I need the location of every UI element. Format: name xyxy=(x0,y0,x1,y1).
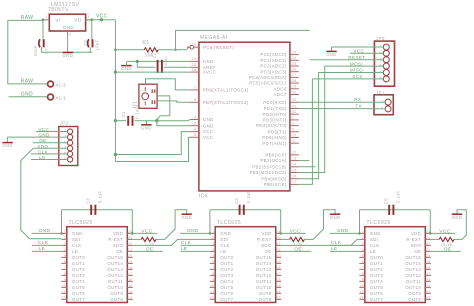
svg-text:17: 17 xyxy=(128,272,132,276)
svg-text:21: 21 xyxy=(128,248,132,252)
svg-text:14: 14 xyxy=(277,290,281,294)
LED driver U4 TLC5925 xyxy=(359,220,431,303)
svg-text:2: 2 xyxy=(69,32,71,36)
svg-text:18: 18 xyxy=(192,68,196,72)
svg-text:17: 17 xyxy=(426,272,430,276)
svg-text:OUT14: OUT14 xyxy=(107,261,123,266)
svg-text:4: 4 xyxy=(64,248,66,252)
svg-text:18: 18 xyxy=(426,266,430,270)
svg-text:OUT3: OUT3 xyxy=(220,273,233,278)
svg-text:8: 8 xyxy=(362,272,364,276)
svg-text:1.2k: 1.2k xyxy=(145,242,155,247)
svg-text:VCC: VCC xyxy=(439,228,450,234)
wire to GND pin 5 xyxy=(157,121,190,126)
connector JP1 xyxy=(374,91,393,115)
svg-text:20: 20 xyxy=(277,254,281,258)
svg-text:5: 5 xyxy=(64,254,66,258)
svg-text:OUT4: OUT4 xyxy=(370,279,383,284)
wire GND into U2 xyxy=(32,232,62,234)
svg-text:11: 11 xyxy=(292,139,296,143)
svg-text:28: 28 xyxy=(292,79,296,83)
wire C8 top xyxy=(91,20,93,39)
svg-text:VCC: VCC xyxy=(203,129,213,134)
IC4 left pins xyxy=(187,43,249,140)
svg-text:JP1: JP1 xyxy=(376,91,385,96)
LED driver U3 TLC5925 xyxy=(210,220,282,303)
wire C7/C8 ground link xyxy=(42,47,92,52)
wire OE JP2-3 xyxy=(33,142,68,144)
wire RAW input to regulator VI xyxy=(8,19,44,21)
svg-text:16: 16 xyxy=(128,278,132,282)
wire C4 rail xyxy=(210,209,281,211)
wire C5 right drop to VDD xyxy=(429,210,431,234)
wire gnd stub near Q1 xyxy=(145,121,147,125)
svg-text:OUT5: OUT5 xyxy=(72,285,85,290)
svg-text:GND: GND xyxy=(21,91,33,97)
svg-text:22: 22 xyxy=(277,242,281,246)
svg-text:OUT12: OUT12 xyxy=(107,273,123,278)
ground at JP3 xyxy=(326,51,336,57)
svg-text:12: 12 xyxy=(360,296,364,300)
svg-text:LE: LE xyxy=(72,249,78,254)
svg-text:PB5(SCK): PB5(SCK) xyxy=(264,182,287,187)
wire TX PD1 to JP1-2 xyxy=(299,108,385,110)
svg-text:RESET: RESET xyxy=(348,55,365,60)
svg-text:OUT2: OUT2 xyxy=(72,267,85,272)
svg-text:15: 15 xyxy=(277,284,281,288)
svg-text:20: 20 xyxy=(192,63,196,67)
svg-text:PD6(AIN0): PD6(AIN0) xyxy=(262,135,287,140)
svg-text:1: 1 xyxy=(292,116,294,120)
pad X1-2 xyxy=(48,81,54,87)
svg-text:SDO: SDO xyxy=(261,243,272,248)
svg-text:100n: 100n xyxy=(164,56,168,66)
svg-text:OUT8: OUT8 xyxy=(110,297,123,302)
svg-text:R-EXT: R-EXT xyxy=(257,237,272,242)
svg-text:3: 3 xyxy=(194,115,196,119)
LED driver U2 TLC5925 xyxy=(61,220,133,303)
svg-text:OUT2: OUT2 xyxy=(370,267,383,272)
svg-text:1: 1 xyxy=(64,230,66,234)
svg-text:6: 6 xyxy=(362,260,364,264)
svg-text:MEGA8-AI: MEGA8-AI xyxy=(200,35,228,41)
svg-text:C2: C2 xyxy=(153,53,157,59)
svg-text:OUT11: OUT11 xyxy=(108,279,124,284)
svg-text:GND: GND xyxy=(181,215,192,220)
svg-text:GND: GND xyxy=(203,123,214,128)
svg-text:LE: LE xyxy=(370,249,376,254)
junction C8 xyxy=(90,18,93,21)
svg-text:VCC: VCC xyxy=(141,228,152,234)
svg-text:PC4(ADC4/SDA): PC4(ADC4/SDA) xyxy=(249,75,287,80)
svg-text:C3: C3 xyxy=(86,198,91,204)
svg-text:OUT14: OUT14 xyxy=(405,261,421,266)
voltage regulator IC1 LM1117SV 7805TV xyxy=(44,2,90,36)
svg-text:TLC5925: TLC5925 xyxy=(68,220,92,226)
wire C2 to AREF pin 20 xyxy=(164,66,190,68)
svg-text:PB1(OC1A): PB1(OC1A) xyxy=(260,158,287,163)
svg-text:VCC: VCC xyxy=(203,135,213,140)
svg-text:1: 1 xyxy=(212,230,214,234)
svg-text:PD7(AIN1): PD7(AIN1) xyxy=(262,141,287,146)
junction C5 gnd xyxy=(358,232,361,235)
resistor R-EXT 1.2k for U2 xyxy=(141,237,156,247)
junction rail-R1 xyxy=(114,49,117,52)
wire SCK PB5 to JP3-6 xyxy=(299,79,383,184)
svg-text:3: 3 xyxy=(212,242,214,246)
wire GND into U4 xyxy=(330,232,360,234)
svg-text:20: 20 xyxy=(128,254,132,258)
svg-text:OUT1: OUT1 xyxy=(220,261,233,266)
wire CLK U3 xyxy=(181,244,210,246)
svg-text:OUT6: OUT6 xyxy=(220,291,233,296)
svg-text:1.2k: 1.2k xyxy=(293,242,303,247)
svg-text:OUT5: OUT5 xyxy=(220,285,233,290)
ground for R-EXT U4 xyxy=(452,214,463,220)
svg-text:OUT4: OUT4 xyxy=(72,279,85,284)
junction VDD U3 xyxy=(279,232,282,235)
wire OE U2 xyxy=(133,250,163,252)
svg-text:PB3(MOSI/OC2): PB3(MOSI/OC2) xyxy=(249,170,286,175)
svg-text:PC6(/RESET): PC6(/RESET) xyxy=(203,45,234,50)
wire R1 to PC6 /RESET xyxy=(158,47,190,50)
wire RAW down to X1-2 xyxy=(8,20,48,84)
svg-text:GND: GND xyxy=(330,215,341,220)
junction VDD U2 xyxy=(131,232,134,235)
svg-text:OUT9: OUT9 xyxy=(259,291,272,296)
wire Q1 bottom pin to PB7 xyxy=(157,101,190,102)
svg-text:7: 7 xyxy=(64,266,66,270)
resonator Q1 xyxy=(133,84,157,108)
wire VCC pin 6 to rail xyxy=(115,137,189,161)
capacitor C7 10uF polarized xyxy=(39,39,44,47)
svg-text:OUT7: OUT7 xyxy=(72,297,85,302)
svg-text:OUT13: OUT13 xyxy=(107,267,123,272)
svg-text:16: 16 xyxy=(292,175,296,179)
svg-text:PB2(SS/OC1B): PB2(SS/OC1B) xyxy=(252,164,287,169)
svg-text:4: 4 xyxy=(212,248,214,252)
wire C3 right drop to VDD xyxy=(131,210,133,234)
wire C4 left drop to GND xyxy=(209,210,211,234)
wire GND into U3 xyxy=(180,232,210,234)
svg-text:X1-1: X1-1 xyxy=(55,95,66,100)
svg-text:6: 6 xyxy=(64,260,66,264)
svg-text:7805TV: 7805TV xyxy=(48,7,69,13)
svg-text:9: 9 xyxy=(362,278,364,282)
svg-text:GND: GND xyxy=(203,59,214,64)
wire MISO PB4 to JP3-5 xyxy=(299,73,383,179)
svg-text:18: 18 xyxy=(128,266,132,270)
wire C7 top xyxy=(42,20,44,39)
svg-text:PD2(INT0): PD2(INT0) xyxy=(263,112,287,117)
wire VCC rail vertical xyxy=(114,20,116,162)
svg-text:0.1uF: 0.1uF xyxy=(246,191,251,204)
svg-text:OUT15: OUT15 xyxy=(405,255,421,260)
svg-text:OUT7: OUT7 xyxy=(370,297,383,302)
svg-text:14: 14 xyxy=(426,290,430,294)
wire R-EXT return to ground U4 xyxy=(454,210,466,240)
svg-text:31: 31 xyxy=(292,104,296,108)
wire gnd stub xyxy=(126,62,128,66)
wire LE U3 xyxy=(181,250,210,252)
svg-text:CLK: CLK xyxy=(370,243,380,248)
svg-text:GND: GND xyxy=(141,125,152,130)
svg-text:8: 8 xyxy=(212,272,214,276)
wire VDD U3 to VCC xyxy=(281,232,306,234)
wire GND to JP3-1 xyxy=(332,46,384,48)
svg-text:OUT1: OUT1 xyxy=(72,261,85,266)
svg-text:2: 2 xyxy=(362,236,364,240)
svg-text:7: 7 xyxy=(212,266,214,270)
svg-text:C7: C7 xyxy=(44,48,49,54)
svg-text:OUT13: OUT13 xyxy=(256,267,272,272)
wire C5 rail xyxy=(360,209,431,211)
svg-text:C4: C4 xyxy=(234,198,239,204)
svg-text:PC2(ADC2): PC2(ADC2) xyxy=(260,64,287,69)
svg-text:9: 9 xyxy=(64,278,66,282)
svg-text:10uF: 10uF xyxy=(33,45,38,56)
svg-text:12: 12 xyxy=(210,296,214,300)
svg-text:GND: GND xyxy=(72,231,83,236)
svg-text:OUT15: OUT15 xyxy=(256,255,272,260)
svg-text:ADC7: ADC7 xyxy=(274,92,287,97)
svg-text:PD3(INT1): PD3(INT1) xyxy=(263,118,287,123)
svg-text:PC5(ADC5/SCL): PC5(ADC5/SCL) xyxy=(249,81,287,86)
svg-text:OUT0: OUT0 xyxy=(370,255,383,260)
svg-text:C8: C8 xyxy=(83,40,88,46)
svg-text:8: 8 xyxy=(64,272,66,276)
connector JP3 xyxy=(374,36,394,86)
svg-text:C5: C5 xyxy=(384,198,389,204)
svg-text:6: 6 xyxy=(194,133,196,137)
svg-text:GND: GND xyxy=(121,66,132,71)
svg-text:22: 22 xyxy=(292,90,296,94)
ground at JP2 xyxy=(2,143,12,149)
wire Q1 top pin to PB6 xyxy=(146,79,190,90)
svg-text:RX: RX xyxy=(354,97,361,102)
svg-text:11: 11 xyxy=(360,290,364,294)
wire VDD U4 to VCC xyxy=(431,232,456,234)
svg-text:RAW: RAW xyxy=(21,79,34,85)
svg-text:SDO: SDO xyxy=(411,243,422,248)
capacitor C4 0.1uF xyxy=(240,205,244,215)
wire VCC pin 4 to rail xyxy=(115,132,189,155)
wire C8 bottom xyxy=(90,47,92,52)
svg-text:SDI: SDI xyxy=(370,237,378,242)
wire OE U3 xyxy=(281,250,311,252)
wire gnd stub JP3 xyxy=(331,47,333,51)
svg-text:ADC6: ADC6 xyxy=(274,86,287,91)
svg-text:PD4(XCK/T0): PD4(XCK/T0) xyxy=(256,123,287,128)
junction rail-C1 xyxy=(114,119,117,122)
svg-text:12: 12 xyxy=(62,296,66,300)
svg-text:X1-2: X1-2 xyxy=(55,82,66,87)
wire Q1 gnd pin down xyxy=(157,96,170,121)
svg-text:VO: VO xyxy=(74,17,81,22)
svg-text:GND: GND xyxy=(370,231,381,236)
wire VCC to JP3-2 xyxy=(350,52,383,54)
junction C7 xyxy=(42,18,45,21)
svg-text:30: 30 xyxy=(292,98,296,102)
svg-text:C1: C1 xyxy=(121,111,126,117)
svg-text:21: 21 xyxy=(277,248,281,252)
wire C4 right drop to VDD xyxy=(280,210,282,234)
svg-text:TX: TX xyxy=(355,103,362,108)
ground near AREF xyxy=(121,66,132,72)
svg-text:VCC: VCC xyxy=(353,49,364,54)
wire R-EXT U2 to resistor xyxy=(133,238,141,240)
svg-text:OUT9: OUT9 xyxy=(408,291,421,296)
svg-text:1.2k: 1.2k xyxy=(443,242,453,247)
svg-text:OUT5: OUT5 xyxy=(370,285,383,290)
svg-text:GND: GND xyxy=(2,143,12,148)
svg-text:OUT12: OUT12 xyxy=(256,273,272,278)
connector JP2 xyxy=(59,120,78,165)
wire OE U4 xyxy=(431,250,461,252)
wire C1 to GND pin 3 xyxy=(135,120,190,121)
wire VDD U2 to VCC xyxy=(133,232,158,234)
svg-text:10: 10 xyxy=(210,284,214,288)
wire C3 left drop to GND xyxy=(61,210,63,234)
svg-text:8: 8 xyxy=(194,98,196,102)
svg-text:22: 22 xyxy=(426,242,430,246)
svg-text:1: 1 xyxy=(381,100,383,104)
wire R-EXT U3 to resistor xyxy=(281,238,289,240)
junction VCC xyxy=(100,18,103,21)
svg-text:23: 23 xyxy=(292,50,296,54)
svg-text:VDD: VDD xyxy=(261,231,271,236)
svg-text:GND: GND xyxy=(452,215,463,220)
svg-text:MOSI: MOSI xyxy=(350,61,363,66)
wire gnd stub JP2 xyxy=(6,137,8,142)
svg-text:OUT11: OUT11 xyxy=(406,279,422,284)
svg-text:4: 4 xyxy=(194,127,196,131)
svg-text:TLC5925: TLC5925 xyxy=(366,220,390,226)
wire SDO JP2-4 xyxy=(33,147,67,149)
svg-text:14: 14 xyxy=(128,290,132,294)
svg-text:6: 6 xyxy=(212,260,214,264)
wire LE U4 xyxy=(330,250,359,252)
svg-text:PC1(ADC1): PC1(ADC1) xyxy=(260,58,287,63)
wire SDO U3 to SDI U4 xyxy=(281,239,359,245)
svg-text:OUT10: OUT10 xyxy=(405,285,421,290)
svg-text:23: 23 xyxy=(277,236,281,240)
resistor R1 10k xyxy=(142,40,158,58)
svg-text:LE: LE xyxy=(220,249,226,254)
junction C2 tee xyxy=(136,60,139,63)
svg-text:16: 16 xyxy=(277,278,281,282)
svg-text:17: 17 xyxy=(277,272,281,276)
svg-text:OUT3: OUT3 xyxy=(370,273,383,278)
wire LE JP2-6 xyxy=(31,159,68,161)
svg-text:PB6(XTAL1/TOSC1): PB6(XTAL1/TOSC1) xyxy=(203,88,249,93)
svg-text:OUT9: OUT9 xyxy=(110,291,123,296)
wire PB2 stub wire xyxy=(299,166,316,168)
junction rail-AVCC xyxy=(114,71,117,74)
capacitor C3 0.1uF xyxy=(91,205,95,215)
svg-text:OUT7: OUT7 xyxy=(220,297,233,302)
svg-text:GND: GND xyxy=(220,231,231,236)
svg-text:OE: OE xyxy=(116,249,123,254)
svg-text:7: 7 xyxy=(362,266,364,270)
svg-text:2: 2 xyxy=(292,121,294,125)
IC4 right pins xyxy=(249,50,299,187)
wire SDO U2 to SDI U3 xyxy=(133,239,210,245)
svg-text:25: 25 xyxy=(292,62,296,66)
svg-text:0.1uF: 0.1uF xyxy=(395,191,400,204)
svg-text:OUT1: OUT1 xyxy=(370,261,383,266)
svg-text:MISO: MISO xyxy=(350,68,363,73)
resistor R-EXT 1.2k for U3 xyxy=(290,237,305,247)
svg-text:R1: R1 xyxy=(142,40,149,46)
svg-text:SDI: SDI xyxy=(72,237,80,242)
wire to C2 left xyxy=(137,61,155,67)
svg-text:VDD: VDD xyxy=(113,231,123,236)
svg-text:CLK: CLK xyxy=(220,243,230,248)
svg-text:OUT4: OUT4 xyxy=(220,279,233,284)
wire GND to pin 21 xyxy=(127,60,190,62)
wire VCC rail to R1 xyxy=(115,49,144,51)
svg-text:SDI: SDI xyxy=(220,237,228,242)
wire R-EXT return to ground xyxy=(156,210,187,240)
svg-text:23: 23 xyxy=(128,236,132,240)
wire SDO down to U2 SDI xyxy=(21,148,62,238)
svg-text:OUT6: OUT6 xyxy=(370,291,383,296)
svg-text:OUT13: OUT13 xyxy=(405,267,421,272)
svg-text:PC3(ADC3): PC3(ADC3) xyxy=(260,69,287,74)
junction gnd net xyxy=(155,119,158,122)
svg-text:IC4: IC4 xyxy=(199,194,208,200)
wire VCC rail to C1 xyxy=(115,120,126,122)
wire RESET to JP3-3 xyxy=(310,59,384,61)
svg-text:23: 23 xyxy=(426,236,430,240)
svg-text:OUT8: OUT8 xyxy=(259,297,272,302)
svg-text:10uF: 10uF xyxy=(95,39,100,50)
svg-text:12: 12 xyxy=(292,151,296,155)
svg-text:15: 15 xyxy=(292,168,296,172)
svg-text:21: 21 xyxy=(192,57,196,61)
junction RESET tee xyxy=(174,49,176,51)
wire R-EXT U4 to resistor xyxy=(431,238,439,240)
svg-text:14: 14 xyxy=(292,163,296,167)
svg-text:OUT10: OUT10 xyxy=(256,285,272,290)
svg-text:9: 9 xyxy=(212,278,214,282)
svg-text:3: 3 xyxy=(64,242,66,246)
pad X1-1 xyxy=(48,94,54,100)
svg-text:GND: GND xyxy=(203,117,214,122)
wire regulator GND pin down xyxy=(67,35,69,52)
svg-text:OUT10: OUT10 xyxy=(107,285,123,290)
svg-text:VI: VI xyxy=(55,17,60,22)
svg-text:19: 19 xyxy=(292,85,296,89)
svg-text:15: 15 xyxy=(128,284,132,288)
svg-text:AVCC: AVCC xyxy=(203,70,216,75)
wire RESET up and over to JP3 xyxy=(176,30,310,49)
svg-text:OUT12: OUT12 xyxy=(405,273,421,278)
svg-text:SDO: SDO xyxy=(113,243,124,248)
capacitor C1 0.1uF xyxy=(128,116,132,126)
ground near C1 xyxy=(141,125,152,131)
svg-text:7: 7 xyxy=(194,86,196,90)
svg-text:PD0(RXD): PD0(RXD) xyxy=(263,100,287,105)
ground for R-EXT xyxy=(181,214,192,220)
svg-text:29: 29 xyxy=(192,43,196,47)
svg-text:OUT11: OUT11 xyxy=(256,279,272,284)
svg-text:CLK: CLK xyxy=(72,243,82,248)
ground below regulator xyxy=(62,53,73,59)
svg-text:R-EXT: R-EXT xyxy=(108,237,123,242)
svg-text:PD5(T1): PD5(T1) xyxy=(268,129,287,134)
